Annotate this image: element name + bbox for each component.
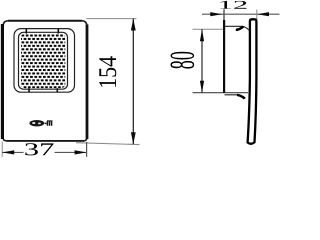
brand logo dash [45,122,47,124]
side view bottom lip flag [237,95,245,99]
grille inner ring [19,32,68,89]
grille tick bottom-left [28,88,30,92]
dim37 arrow left [2,150,14,154]
dim37 right extension line [86,142,88,157]
front view body [3,21,87,141]
grille outer ring [14,29,75,93]
dim80 arrow up [200,29,204,41]
brand logo right mark [47,121,51,126]
dim80 and side bottom line [193,92,249,94]
dim37 left extension line [1,142,3,157]
front view top edge [8,20,82,22]
grille tick bottom-right [56,88,58,92]
dim37 dimension line left segment [2,151,23,153]
side view back plate line [223,9,225,21]
dim12 label [220,1,246,9]
brand logo right mark top [47,120,52,122]
dim12 arrow pointing right [210,12,222,16]
side view top surface [225,26,249,30]
front view thick right edge [86,25,89,140]
dim37 arrow right [75,150,87,154]
dim80 label [171,52,195,69]
dim37 dimension line right segment [55,151,87,153]
brand logo left oval highlights [32,122,35,124]
side view bottom lip line [225,95,246,99]
dim12 arrow pointing left [257,12,269,16]
dim154 top extension line [87,18,137,20]
dim12 right extension line [256,10,258,20]
front view thick left edge [1,24,4,139]
side view top lip flag [236,27,244,30]
grille tick top-right [57,29,59,34]
front view bottom edge [7,140,84,142]
dim12 dimension line [202,13,280,15]
grille tick top-left [25,29,27,34]
dim154 arrow up [131,19,136,31]
dim154 bottom extension line [76,143,140,145]
dim37 label [25,143,53,155]
dim80 arrow down [200,81,204,93]
dim154 arrow down [131,132,136,144]
dim80 top extension line [193,28,225,30]
grille halftone mesh [21,33,65,88]
dim80 dimension line [201,29,203,92]
side view front shell [248,19,257,143]
brand logo left oval [29,120,44,126]
dim154 dimension line [132,19,134,145]
dim154 label [99,56,116,87]
